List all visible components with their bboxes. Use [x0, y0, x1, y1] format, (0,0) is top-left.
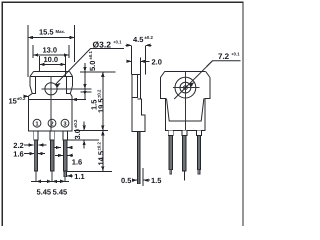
- back lead 3 shoulder: [197, 130, 202, 135]
- lead 2 tip extension line: [51, 171, 53, 181]
- body front face extension line: [142, 168, 144, 186]
- pin 3 circle: [61, 119, 69, 127]
- lead 3 bar: [64, 140, 67, 171]
- dim 2.0 line: [127, 60, 132, 62]
- back view boss outer circle: [175, 77, 196, 98]
- svg-text:+0.1: +0.1: [113, 40, 122, 45]
- svg-text:±0.2: ±0.2: [96, 89, 101, 98]
- dim 19.5 line: [102, 72, 104, 130]
- shoulder end extension line: [68, 139, 99, 141]
- lead 3 tip extension line: [64, 177, 66, 182]
- back view hole circle: [180, 82, 191, 93]
- top surface extension line: [80, 71, 116, 73]
- svg-text:7.2: 7.2: [218, 52, 230, 61]
- front view mold step line under chamfer: [30, 76, 73, 78]
- dim 13.0 dimension line: [33, 54, 69, 56]
- svg-text:4.5: 4.5: [133, 35, 143, 44]
- back lead 2 center line: [184, 171, 186, 180]
- front view body outline: axis-aligned parts: [28, 72, 72, 132]
- hole horizontal crosshair: [42, 88, 92, 90]
- dim 5.45 5.45 line: [31, 180, 69, 182]
- extension line notch bottom right: [81, 91, 92, 93]
- side view step line: [138, 98, 141, 100]
- dim 15 right arrow on ledge extension: [72, 99, 86, 101]
- lead 2 bar: [50, 140, 53, 171]
- back lead 1 tip: [170, 170, 172, 175]
- svg-text:5.45: 5.45: [37, 187, 52, 196]
- back view step lines: [160, 97, 165, 99]
- label 14.5 vertical: [96, 142, 105, 166]
- back lead 3 tip: [198, 170, 200, 175]
- dim 13.0 extension lines: [32, 45, 34, 58]
- svg-text:1.6: 1.6: [13, 150, 23, 159]
- dim 15.5 Max. extension lines: [27, 25, 29, 77]
- svg-text:10.0: 10.0: [44, 55, 59, 64]
- dim 1.6 middle upper arrow row: [54, 147, 61, 149]
- svg-text:1.5: 1.5: [151, 176, 161, 185]
- svg-text:1.6: 1.6: [72, 157, 82, 166]
- dim 4.5 line: [126, 44, 132, 46]
- dim 3.0 lower arrow: [83, 140, 85, 148]
- svg-text:2: 2: [50, 120, 53, 127]
- side view body outline: [132, 75, 145, 132]
- svg-text:5.45: 5.45: [53, 187, 68, 196]
- border frame: [2, 2, 243, 226]
- svg-text:3.0: 3.0: [73, 129, 82, 139]
- svg-text:±0.2: ±0.2: [73, 119, 78, 128]
- front view right notch inner wall: [67, 77, 71, 94]
- lead 3 narrow tip: [64, 171, 67, 177]
- back view horizontal crosshair: [173, 87, 200, 89]
- dim 1.5 stack line: [84, 63, 86, 100]
- label 3.0 vertical: [73, 119, 82, 139]
- label 5.0 vertical: [88, 51, 97, 71]
- pin 1 circle: [33, 119, 41, 127]
- dim 10.0 dimension line: [39, 63, 65, 65]
- back lead 1 shoulder: [168, 130, 173, 135]
- leader for 7.2: [207, 61, 241, 67]
- lead tip extension line: [67, 170, 112, 172]
- svg-text:13.0: 13.0: [43, 46, 58, 55]
- leader for dia 3.2: [55, 49, 124, 85]
- svg-text:1.1: 1.1: [74, 172, 84, 181]
- back lead 3 bar: [197, 136, 200, 170]
- lead 2 shoulder: [50, 131, 54, 140]
- back lead 2 bar: [183, 136, 186, 172]
- svg-text:19.5: 19.5: [96, 98, 105, 113]
- label 19.5 vertical: [96, 89, 105, 113]
- front view body outline: chamfers and tapers: [28, 72, 72, 97]
- dim 1.6 middle lower arrow row: [55, 154, 63, 156]
- dim 10.0 extension lines: [38, 56, 40, 71]
- svg-text:Max.: Max.: [56, 29, 66, 34]
- lead 1 bar: [34, 140, 37, 171]
- svg-text:±0.2: ±0.2: [145, 35, 154, 40]
- side view lead: [138, 132, 140, 184]
- lead 1 tip extension line: [35, 171, 37, 181]
- dim 2.0 extension line: [139, 58, 141, 75]
- svg-text:2.0: 2.0: [152, 58, 162, 67]
- back view inner bottom line: [169, 120, 201, 122]
- back view body outline: axis parts: [160, 72, 210, 131]
- back view vertical crosshair: [184, 72, 186, 131]
- svg-text:15.5: 15.5: [39, 28, 54, 37]
- back view chamfer corners: [160, 72, 210, 78]
- dim 15.5 Max. dimension line: [28, 37, 75, 39]
- front view ledge line: [28, 98, 72, 100]
- back lead 1 bar: [169, 136, 172, 170]
- svg-text:15: 15: [9, 96, 17, 105]
- pin 2 circle: [48, 119, 56, 127]
- lead 1 shoulder: [34, 131, 38, 140]
- side view inner tab line: [132, 75, 138, 98]
- back lead 2 shoulder: [182, 130, 187, 135]
- svg-text:+0.1: +0.1: [231, 52, 240, 57]
- svg-text:±0.2: ±0.2: [96, 142, 101, 151]
- svg-text:5.0: 5.0: [88, 61, 97, 71]
- back view center mark circle: [184, 86, 188, 90]
- dim 4.5 extension lines: [131, 46, 133, 75]
- dim 3.0 upper arrow: [83, 122, 85, 131]
- dim 15 left arrow: [25, 95, 28, 97]
- svg-text:Ø3.2: Ø3.2: [93, 39, 112, 49]
- body bottom extension line: [74, 129, 108, 131]
- svg-text:14.5: 14.5: [96, 151, 105, 166]
- back view draft slant left: [167, 98, 204, 121]
- front view left notch inner wall: [32, 77, 36, 94]
- dim 14.5 line: [102, 130, 104, 171]
- lead 3 shoulder: [63, 131, 67, 140]
- mounting hole: [45, 83, 57, 95]
- label 1.5 vertical: [89, 100, 98, 110]
- svg-text:±0.1: ±0.1: [88, 51, 93, 60]
- front view vertical center line: [50, 77, 52, 132]
- dim 1.1: [67, 175, 73, 177]
- svg-text:0.5: 0.5: [121, 176, 131, 185]
